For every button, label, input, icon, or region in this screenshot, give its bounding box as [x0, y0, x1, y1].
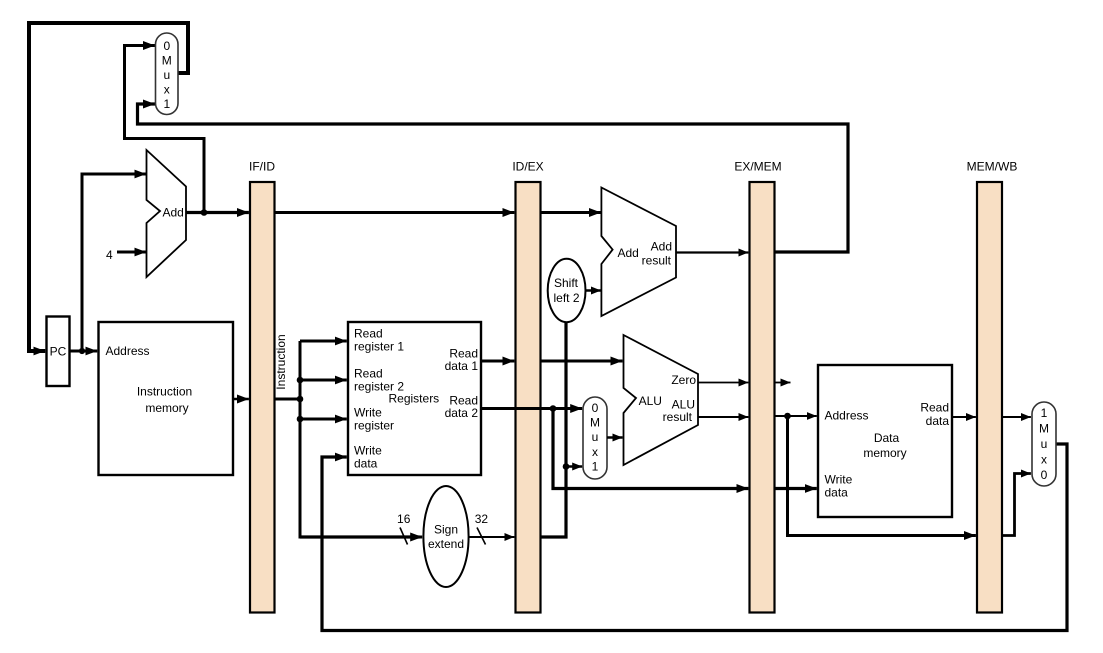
svg-text:Zero: Zero	[671, 373, 696, 387]
svg-text:Add: Add	[618, 246, 639, 260]
svg-text:Write: Write	[354, 444, 382, 458]
svg-text:MEM/WB: MEM/WB	[967, 160, 1018, 174]
svg-text:Read: Read	[920, 401, 949, 415]
svg-text:0: 0	[1041, 468, 1048, 482]
svg-text:Add: Add	[651, 240, 672, 254]
svg-text:1: 1	[163, 97, 170, 111]
svg-text:register 1: register 1	[354, 340, 404, 354]
svg-text:result: result	[663, 410, 693, 424]
svg-text:data: data	[825, 486, 849, 500]
svg-text:Add: Add	[163, 206, 184, 220]
svg-text:left 2: left 2	[553, 291, 579, 305]
svg-text:Instruction: Instruction	[137, 385, 192, 399]
svg-text:data 1: data 1	[445, 359, 479, 373]
svg-text:PC: PC	[50, 345, 67, 359]
svg-text:EX/MEM: EX/MEM	[734, 160, 781, 174]
svg-text:IF/ID: IF/ID	[249, 160, 275, 174]
svg-text:x: x	[1041, 453, 1047, 467]
svg-text:Shift: Shift	[554, 276, 579, 290]
svg-text:Read: Read	[354, 367, 383, 381]
svg-text:Address: Address	[825, 409, 869, 423]
svg-text:u: u	[592, 430, 599, 444]
svg-text:Registers: Registers	[389, 392, 440, 406]
svg-text:Data: Data	[874, 431, 900, 445]
svg-text:data 2: data 2	[445, 406, 479, 420]
svg-text:Read: Read	[354, 327, 383, 341]
svg-text:0: 0	[592, 401, 599, 415]
svg-text:memory: memory	[863, 446, 906, 460]
svg-text:ALU: ALU	[639, 394, 662, 408]
svg-text:memory: memory	[145, 401, 188, 415]
svg-text:x: x	[164, 83, 170, 97]
svg-text:x: x	[592, 445, 598, 459]
svg-text:u: u	[1041, 437, 1048, 451]
svg-text:M: M	[590, 416, 600, 430]
svg-text:extend: extend	[428, 537, 464, 551]
svg-text:register: register	[354, 419, 394, 433]
svg-text:Instruction: Instruction	[274, 334, 288, 389]
svg-text:u: u	[163, 68, 170, 82]
svg-text:32: 32	[475, 512, 489, 526]
svg-text:result: result	[642, 254, 672, 268]
svg-text:0: 0	[163, 39, 170, 53]
svg-text:data: data	[354, 457, 378, 471]
svg-text:Write: Write	[825, 473, 853, 487]
svg-text:16: 16	[397, 512, 411, 526]
svg-text:4: 4	[106, 248, 113, 262]
svg-text:Sign: Sign	[434, 523, 458, 537]
svg-text:1: 1	[1041, 406, 1048, 420]
svg-text:Write: Write	[354, 406, 382, 420]
svg-text:ID/EX: ID/EX	[512, 160, 543, 174]
svg-text:M: M	[1039, 422, 1049, 436]
svg-text:M: M	[162, 54, 172, 68]
svg-text:1: 1	[592, 460, 599, 474]
svg-text:Address: Address	[106, 344, 150, 358]
svg-text:data: data	[926, 414, 950, 428]
